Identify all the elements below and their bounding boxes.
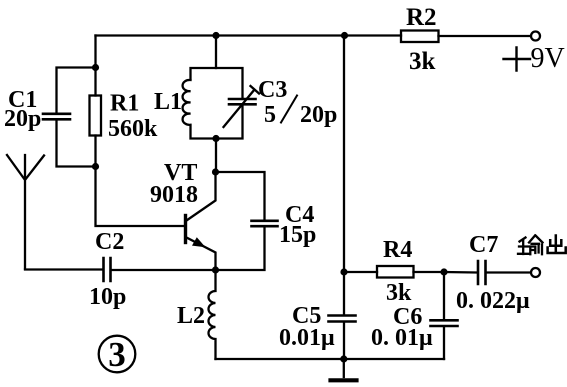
svg-text:3: 3 (108, 335, 126, 374)
svg-text:20p: 20p (4, 106, 41, 132)
terminal output (531, 268, 540, 277)
node top rail / vertical rail junction (341, 32, 348, 39)
wire L1 bottom to collector node (215, 139, 217, 173)
bottom rail wire (216, 358, 445, 360)
antenna (7, 155, 44, 269)
inductor L1 (tank box, coil bumps on left edge) (183, 68, 243, 139)
svg-text:0. 022μ: 0. 022μ (456, 288, 530, 314)
node R4 right / C6 top junction (440, 268, 447, 275)
wire C1 top branch (57, 68, 96, 113)
wire C4 bottom branch (216, 228, 265, 271)
wire antenna to C2 (25, 268, 103, 270)
wire C4 top branch (216, 172, 265, 219)
capacitor C2 (104, 258, 111, 281)
wire C1 bottom branch (57, 121, 96, 167)
node L1 bottom (212, 135, 219, 142)
capacitor C5 (329, 316, 356, 322)
resistor R1 (90, 96, 102, 136)
label 输出 (output) (518, 236, 543, 255)
main vertical rail wire (343, 36, 345, 360)
node emitter junction (212, 266, 219, 273)
svg-text:R1: R1 (110, 91, 139, 117)
left rail wire (upper) (94, 36, 96, 96)
svg-text:C3: C3 (258, 77, 287, 103)
capacitor C4 (252, 221, 278, 226)
svg-text:L1: L1 (154, 89, 182, 115)
svg-text:9V: 9V (531, 43, 565, 74)
wire top rail to L1 top (215, 36, 217, 69)
capacitor C1 (43, 114, 70, 120)
svg-text:3k: 3k (386, 280, 412, 306)
top rail wire (96, 34, 402, 36)
svg-text:L2: L2 (177, 303, 205, 329)
transistor VT (9018, NPN) (184, 216, 187, 243)
svg-text:R4: R4 (383, 237, 412, 263)
svg-text:R2: R2 (406, 4, 437, 31)
svg-text:15p: 15p (279, 222, 316, 248)
node ground junction (340, 355, 347, 362)
svg-text:560k: 560k (108, 116, 158, 142)
svg-text:C2: C2 (95, 229, 124, 255)
terminal +9V (531, 32, 540, 41)
svg-text:9018: 9018 (150, 182, 198, 208)
svg-text:0.01μ: 0.01μ (279, 325, 335, 351)
svg-text:3k: 3k (409, 48, 436, 75)
capacitor C6 (443, 272, 445, 359)
capacitor C7 (444, 271, 531, 274)
svg-text:20p: 20p (300, 102, 337, 128)
svg-text:10p: 10p (89, 284, 126, 310)
variable capacitor C3 (229, 99, 256, 104)
svg-text:C7: C7 (469, 232, 498, 258)
svg-text:0. 01μ: 0. 01μ (371, 325, 433, 351)
node R1 bottom / C1 bottom junction (92, 163, 99, 170)
node R4 left junction (340, 268, 347, 275)
figure number 3 (circled) (99, 336, 136, 373)
resistor R2 (401, 31, 439, 43)
label +9V (504, 48, 531, 71)
ground (343, 359, 345, 377)
resistor R4 (344, 271, 444, 273)
node R1 top / C1 top junction (92, 64, 99, 71)
svg-text:5: 5 (264, 102, 276, 128)
wire C2 to emitter node (112, 269, 216, 271)
node top rail / L1 feed (212, 32, 219, 39)
node collector / C4 top junction (212, 168, 219, 175)
inductor L2 (209, 270, 216, 359)
left rail wire (lower) + wire to base (96, 136, 185, 227)
